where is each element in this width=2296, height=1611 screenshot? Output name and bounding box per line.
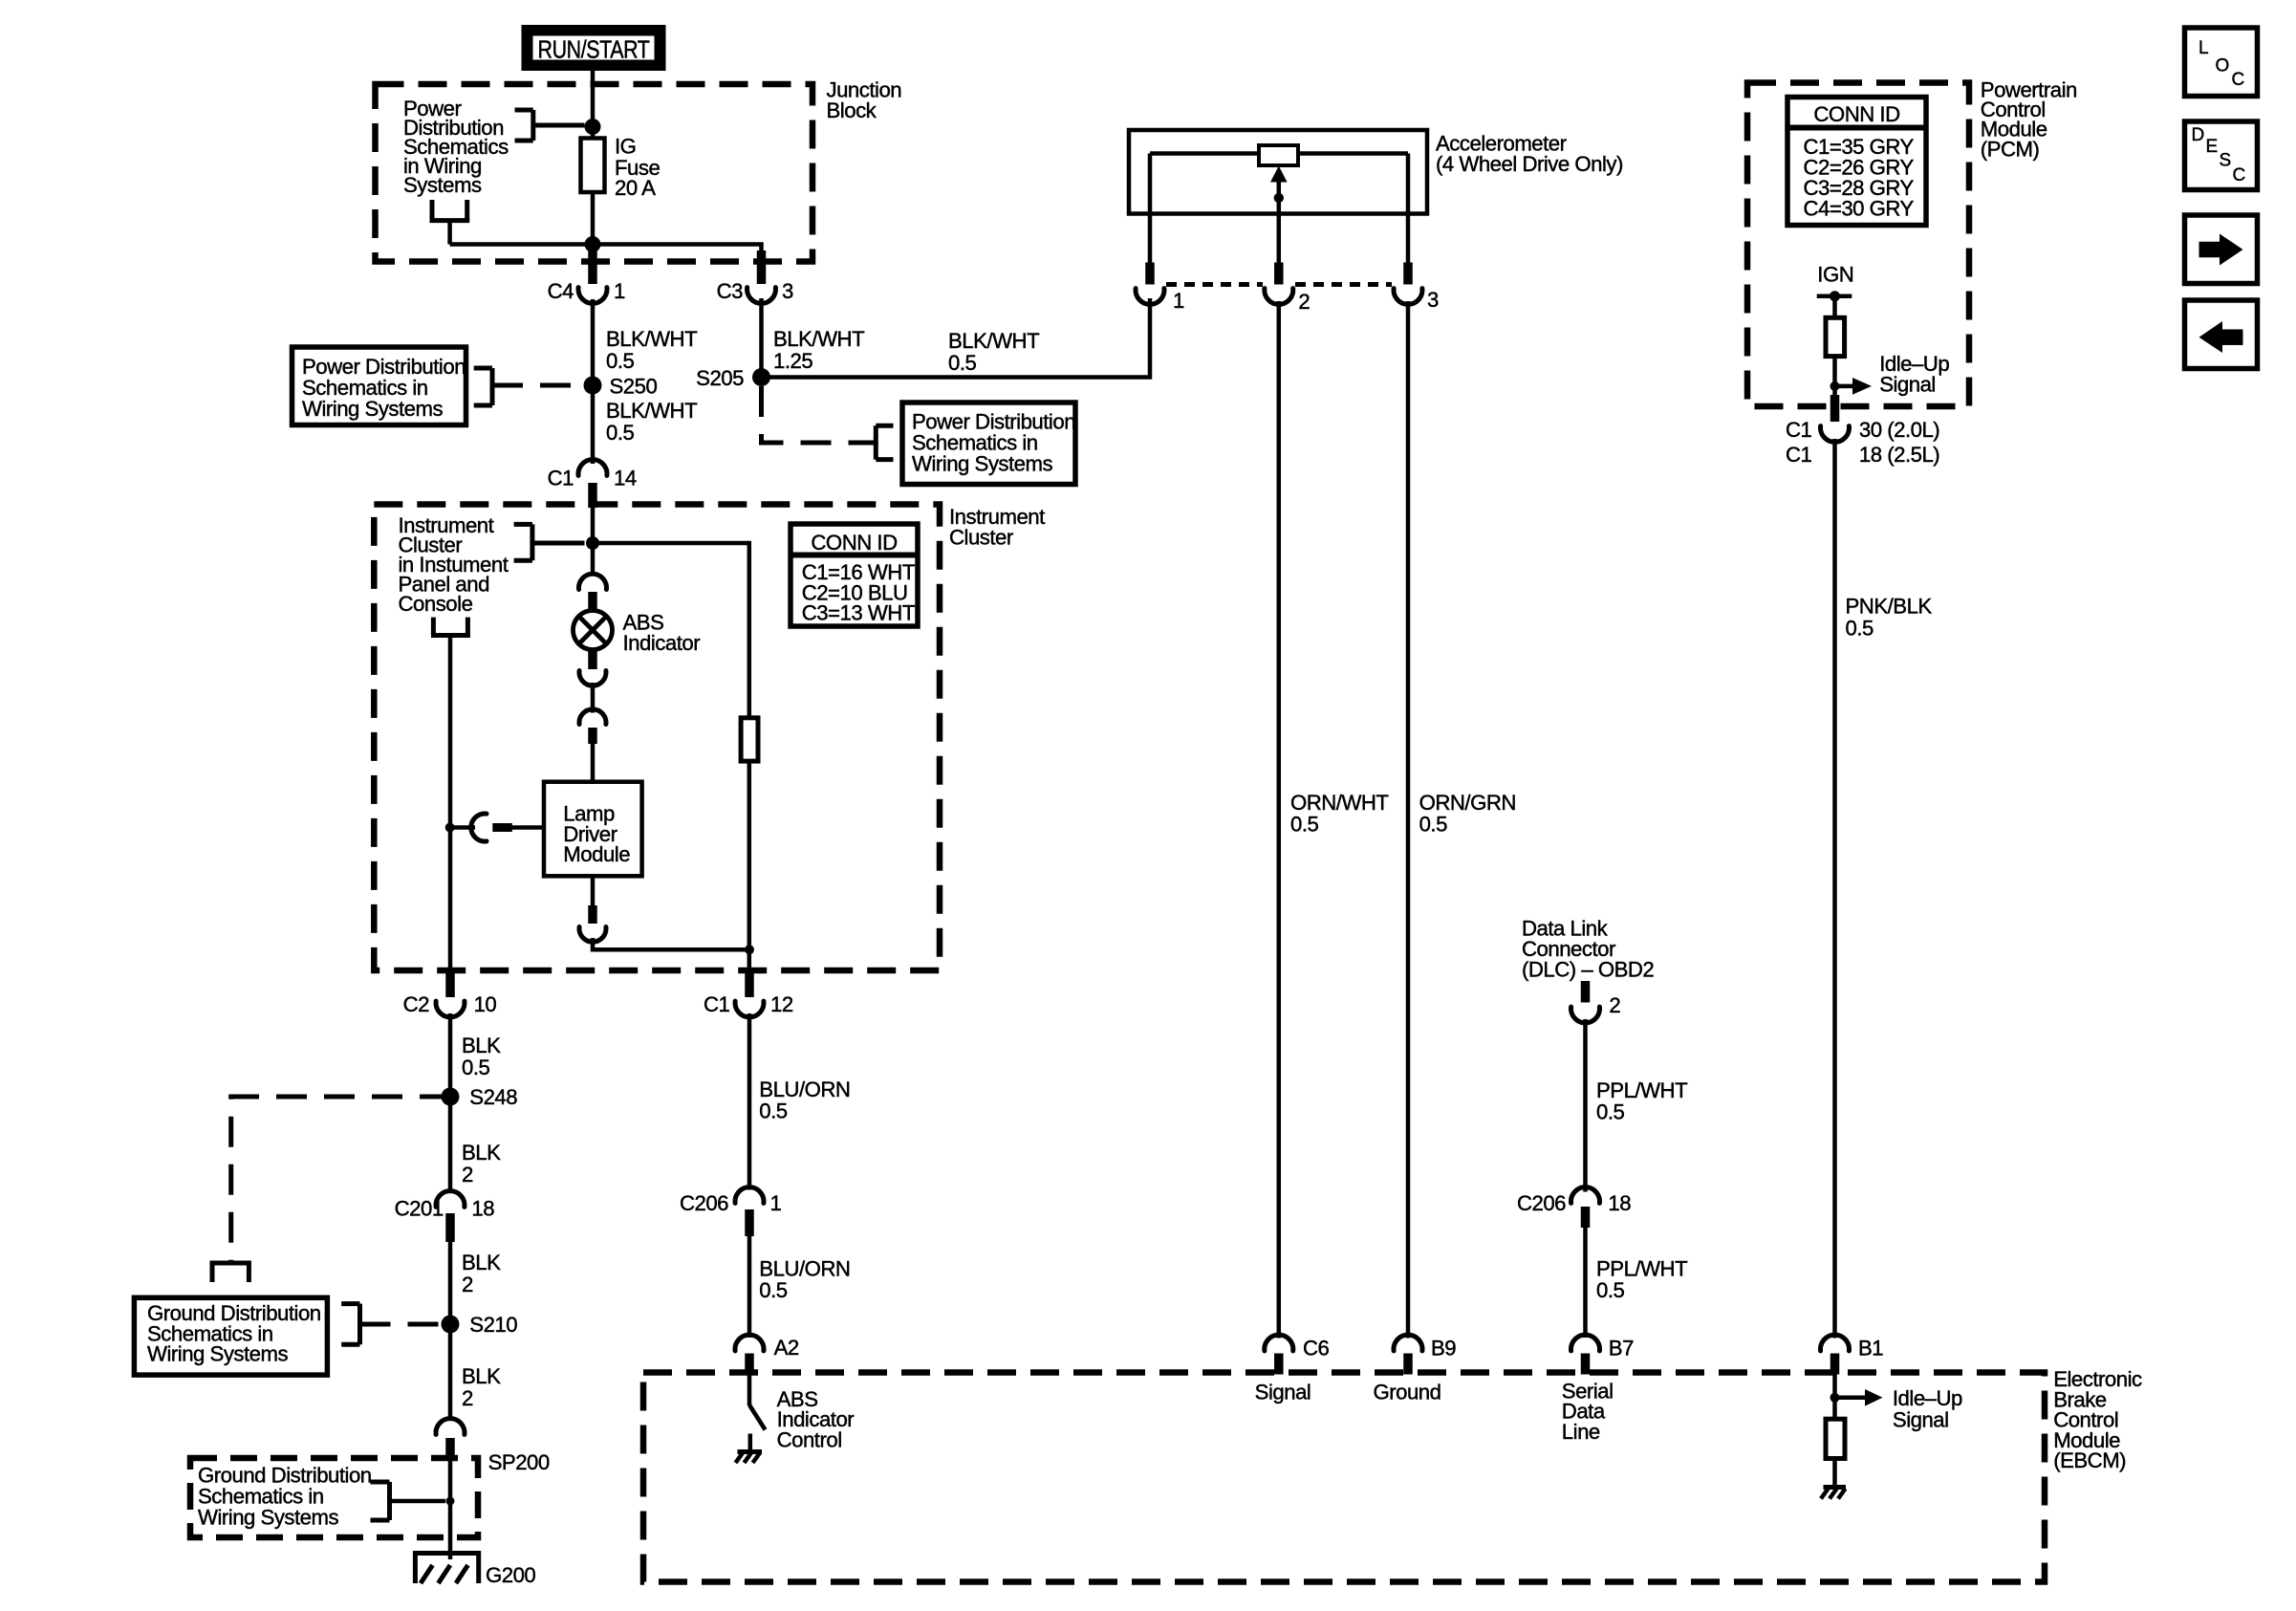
label Idle-Up Signal (PCM): [1879, 352, 1949, 397]
splice S250: [584, 375, 658, 399]
svg-text:Wiring Systems: Wiring Systems: [302, 397, 444, 421]
DESC box: [2185, 121, 2258, 190]
wire SP200 to G200: [448, 1457, 453, 1559]
reference box power distribution schematics (right): [902, 403, 1075, 485]
splice S205: [696, 366, 770, 390]
svg-text:C1: C1: [1786, 418, 1812, 442]
wire RUN/START to fuse: [591, 71, 596, 140]
reference bracket (instrument cluster): [514, 524, 585, 560]
svg-text:(DLC) – OBD2: (DLC) – OBD2: [1522, 957, 1654, 981]
svg-text:ORN/WHT: ORN/WHT: [1290, 791, 1389, 815]
svg-text:C206: C206: [1517, 1191, 1566, 1215]
svg-text:Wiring Systems: Wiring Systems: [147, 1342, 289, 1366]
svg-text:30 (2.0L): 30 (2.0L): [1859, 418, 1939, 442]
wire pin3 to B9: [1406, 301, 1411, 1339]
wire ground leg: [448, 636, 453, 990]
svg-text:Line: Line: [1562, 1420, 1600, 1444]
connector C201 pin 18: [395, 1191, 495, 1242]
svg-text:3: 3: [1427, 288, 1439, 312]
svg-text:3: 3: [782, 279, 793, 303]
wire label ORN/GRN 0.5: [1419, 791, 1516, 837]
wire C1-12 to C206-1: [747, 1013, 752, 1190]
wire pin2 to C6: [1277, 301, 1282, 1339]
connector C1 pin 14: [548, 460, 637, 508]
svg-text:SP200: SP200: [488, 1450, 550, 1474]
svg-text:Signal: Signal: [1879, 373, 1936, 397]
reference dashed stem S205: [762, 386, 877, 443]
svg-text:0.5: 0.5: [1419, 813, 1448, 837]
wire S205 to accelerometer pin 1: [762, 298, 1151, 378]
connector C206 pin 1: [680, 1187, 782, 1236]
svg-text:(EBCM): (EBCM): [2053, 1448, 2126, 1472]
svg-text:0.5: 0.5: [948, 351, 977, 375]
svg-text:BLK: BLK: [462, 1251, 501, 1274]
wire label BLK/WHT 0.5 (S205 wire): [948, 329, 1040, 375]
wire DLC to C206-18: [1583, 1019, 1588, 1192]
connector PCM C1: [1786, 395, 1939, 467]
svg-text:BLK: BLK: [462, 1034, 501, 1057]
connector C206 pin 18: [1517, 1187, 1631, 1228]
connector A2: [735, 1335, 799, 1375]
svg-text:2: 2: [462, 1163, 473, 1186]
svg-text:2: 2: [1298, 290, 1310, 314]
svg-text:E: E: [2206, 137, 2218, 157]
svg-text:B9: B9: [1431, 1337, 1456, 1361]
svg-text:C: C: [2232, 70, 2244, 90]
accelerometer label: [1436, 132, 1623, 177]
svg-text:O: O: [2216, 56, 2229, 76]
reference bracket under console text: [431, 618, 470, 636]
wire resistor to chassis ground: [1832, 1459, 1837, 1489]
svg-text:(4 Wheel Drive Only): (4 Wheel Drive Only): [1436, 152, 1623, 176]
chassis ground (EBCM): [1821, 1488, 1846, 1499]
reference bracket (junction block): [515, 110, 585, 141]
module left output connector: [450, 814, 544, 841]
svg-text:0.5: 0.5: [759, 1278, 788, 1302]
powertrain control module box: [1747, 83, 1969, 407]
PCM CONN ID table: [1787, 98, 1926, 226]
svg-text:C1: C1: [704, 992, 730, 1016]
svg-text:1: 1: [614, 279, 625, 303]
wire C4 to S250: [591, 299, 596, 464]
reference box power distribution schematics (left): [292, 347, 466, 425]
svg-text:2: 2: [462, 1386, 473, 1410]
svg-text:ORN/GRN: ORN/GRN: [1419, 791, 1516, 815]
wire C201 to S210: [448, 1242, 453, 1421]
reference bracket (SP200 box): [371, 1482, 446, 1520]
node at G200 stem: [446, 1497, 455, 1506]
svg-text:L: L: [2199, 38, 2208, 58]
svg-text:IG: IG: [615, 135, 636, 159]
node below C1-14: [586, 536, 599, 550]
node above fuse: [585, 119, 601, 135]
svg-text:Wiring Systems: Wiring Systems: [912, 452, 1053, 476]
label Idle-Up Signal (EBCM): [1893, 1386, 1962, 1431]
ground G200: [413, 1551, 481, 1583]
idle-up node and arrow (PCM): [1830, 378, 1873, 395]
accelerometer internal circuit: [1150, 145, 1408, 214]
wire label ORN/WHT 0.5: [1290, 791, 1389, 837]
wire C206-1 to A2: [747, 1236, 752, 1338]
svg-text:Indicator: Indicator: [623, 631, 702, 655]
IGN terminal: [1817, 291, 1852, 319]
svg-text:18: 18: [471, 1197, 494, 1221]
svg-text:Systems: Systems: [403, 173, 482, 197]
instrument cluster label: [949, 505, 1045, 550]
svg-text:0.5: 0.5: [759, 1099, 788, 1123]
fuse IG 20A: [581, 139, 605, 193]
ABS indicator control switch: [736, 1375, 766, 1463]
wire label BLU/ORN 0.5 (upper): [759, 1078, 850, 1123]
svg-text:Signal: Signal: [1255, 1381, 1311, 1404]
resistor (instrument cluster): [741, 718, 758, 761]
connector C1 pin 12: [704, 968, 793, 1017]
wire label BLK/WHT 1.25: [773, 327, 865, 373]
connector DLC pin 2: [1571, 981, 1621, 1023]
svg-text:A2: A2: [774, 1336, 799, 1360]
svg-text:14: 14: [614, 467, 637, 490]
svg-text:C1: C1: [548, 467, 574, 490]
connector C4 pin 1: [548, 250, 625, 303]
wire label PNK/BLK 0.5: [1846, 595, 1933, 641]
reference label instrument cluster in instrument panel: [399, 513, 509, 616]
svg-text:C: C: [2233, 165, 2245, 185]
junction block label: [827, 78, 902, 123]
svg-text:18: 18: [1608, 1191, 1631, 1215]
svg-text:PNK/BLK: PNK/BLK: [1846, 595, 1933, 619]
connector C2 pin 10: [403, 968, 497, 1017]
svg-text:2: 2: [1609, 993, 1620, 1017]
connector B1: [1821, 1335, 1884, 1374]
reference dashed stem S248: [231, 1097, 450, 1263]
wire fuse to lower node: [591, 190, 596, 262]
svg-text:0.5: 0.5: [1290, 813, 1319, 837]
wire label BLU/ORN 0.5 (lower): [759, 1257, 850, 1303]
connector C6: [1265, 1335, 1330, 1374]
splice S248: [442, 1085, 518, 1109]
svg-text:S250: S250: [610, 375, 658, 399]
label IGN: [1817, 263, 1853, 287]
svg-text:C3=13 WHT: C3=13 WHT: [802, 601, 916, 625]
wire resistor to PCM C1: [1832, 357, 1837, 411]
svg-text:20 A: 20 A: [615, 176, 656, 200]
svg-text:Console: Console: [399, 592, 473, 616]
svg-text:0.5: 0.5: [1596, 1100, 1625, 1124]
svg-text:BLK/WHT: BLK/WHT: [773, 327, 865, 351]
svg-text:S248: S248: [469, 1085, 517, 1109]
svg-text:BLK: BLK: [462, 1364, 501, 1388]
wire label PPL/WHT 0.5 (upper): [1596, 1078, 1688, 1124]
svg-text:Module: Module: [563, 842, 630, 866]
junction block box: [376, 84, 813, 262]
svg-text:Idle–Up: Idle–Up: [1893, 1386, 1962, 1410]
accelerometer pin 2: [1265, 214, 1310, 315]
electronic brake control module box: [643, 1373, 2045, 1582]
splice SP200: [436, 1419, 550, 1474]
connector B7: [1571, 1335, 1635, 1374]
accelerometer connector dashed line: [1166, 282, 1392, 287]
power source label RUN/START: [526, 30, 661, 67]
forward arrow box: [2185, 215, 2258, 284]
PCM label: [1981, 78, 2077, 162]
svg-text:12: 12: [770, 992, 793, 1016]
svg-text:PPL/WHT: PPL/WHT: [1596, 1078, 1688, 1102]
svg-text:C3: C3: [717, 279, 744, 303]
svg-text:18 (2.5L): 18 (2.5L): [1859, 443, 1939, 467]
svg-text:1: 1: [1173, 289, 1184, 313]
svg-text:(PCM): (PCM): [1981, 138, 2040, 162]
label Ground: [1373, 1381, 1440, 1404]
reference bracket and dashed stem to S250: [474, 368, 579, 405]
svg-text:BLU/ORN: BLU/ORN: [759, 1078, 850, 1101]
wire label BLK 2 (upper): [462, 1141, 501, 1186]
wire C3 to S205: [759, 298, 764, 381]
wire resistor to C1-12: [747, 761, 752, 989]
svg-text:1.25: 1.25: [773, 349, 812, 373]
connector C3 pin 3: [717, 250, 793, 303]
B1 internal node and arrow: [1830, 1374, 1883, 1421]
svg-text:C2: C2: [403, 992, 430, 1016]
wire label BLK/WHT 0.5 (C4): [606, 327, 698, 373]
resistor (EBCM): [1826, 1419, 1845, 1458]
svg-text:BLK/WHT: BLK/WHT: [606, 399, 698, 423]
node below fuse: [585, 236, 601, 252]
data link connector label: [1522, 917, 1654, 982]
svg-text:RUN/START: RUN/START: [538, 35, 650, 64]
wire C1-14 to lamp: [591, 508, 596, 577]
reference bracket (S205 box): [876, 425, 893, 459]
svg-text:BLK/WHT: BLK/WHT: [948, 329, 1040, 353]
connector half above ABS lamp: [579, 574, 607, 610]
wire node to resistor branch: [593, 543, 749, 720]
reference bracket (S248): [210, 1263, 251, 1282]
svg-text:G200: G200: [486, 1563, 535, 1587]
svg-text:Ground: Ground: [1373, 1381, 1440, 1404]
svg-text:Control: Control: [777, 1427, 842, 1451]
reference bracket under power distribution text: [430, 200, 594, 245]
svg-text:B7: B7: [1609, 1337, 1634, 1361]
svg-text:0.5: 0.5: [462, 1056, 490, 1079]
resistor (PCM): [1826, 317, 1845, 356]
instrument cluster CONN ID table: [791, 524, 918, 626]
accelerometer pin 1: [1136, 214, 1184, 314]
reference box ground distribution schematics (solid): [134, 1297, 327, 1375]
accelerometer pin 3: [1394, 214, 1439, 313]
wire label BLK 2 (lower): [462, 1364, 501, 1410]
svg-text:CONN ID: CONN ID: [1813, 102, 1899, 126]
svg-text:C206: C206: [680, 1191, 728, 1215]
svg-text:BLU/ORN: BLU/ORN: [759, 1257, 850, 1281]
svg-text:0.5: 0.5: [606, 421, 635, 445]
svg-text:2: 2: [462, 1273, 473, 1296]
svg-text:0.5: 0.5: [606, 349, 635, 373]
svg-text:Signal: Signal: [1893, 1407, 1949, 1431]
instrument cluster box: [374, 505, 940, 971]
label ABS Indicator Control: [777, 1387, 856, 1452]
node lamp module return: [745, 945, 754, 954]
svg-text:C1: C1: [1786, 443, 1812, 467]
reference box ground distribution schematics (dashed): [190, 1458, 478, 1537]
lamp driver module box: [544, 782, 642, 877]
svg-text:D: D: [2192, 125, 2204, 145]
svg-text:CONN ID: CONN ID: [811, 531, 897, 555]
label Signal: [1255, 1381, 1311, 1404]
svg-text:S205: S205: [696, 366, 744, 390]
label ABS Indicator: [623, 611, 702, 656]
svg-text:C6: C6: [1303, 1337, 1330, 1361]
node on ground leg: [445, 823, 455, 833]
svg-text:Wiring Systems: Wiring Systems: [198, 1506, 339, 1530]
reference label power distribution schematics (junction block): [403, 97, 509, 197]
svg-text:S210: S210: [469, 1313, 517, 1337]
svg-text:Block: Block: [827, 98, 877, 122]
svg-text:0.5: 0.5: [1846, 617, 1874, 641]
svg-text:B1: B1: [1858, 1337, 1883, 1361]
svg-text:PPL/WHT: PPL/WHT: [1596, 1257, 1688, 1281]
connector B9: [1394, 1335, 1456, 1374]
wire PCM C1 to B1: [1832, 439, 1837, 1339]
wire connector to lamp driver module: [591, 743, 596, 784]
svg-text:C201: C201: [395, 1197, 444, 1221]
svg-text:C4=30 GRY: C4=30 GRY: [1804, 197, 1915, 221]
ABS indicator lamp: [574, 611, 613, 650]
svg-text:IGN: IGN: [1817, 263, 1853, 287]
module bottom connector: [579, 876, 749, 949]
svg-text:BLK/WHT: BLK/WHT: [606, 327, 698, 351]
wire node to C3 drop: [593, 245, 762, 263]
svg-text:Cluster: Cluster: [949, 526, 1014, 550]
svg-text:0.5: 0.5: [1596, 1278, 1625, 1302]
wire label BLK/WHT 0.5 (S250): [606, 399, 698, 445]
svg-text:10: 10: [474, 992, 497, 1016]
wire C2 to S248: [448, 1013, 453, 1193]
back arrow box: [2185, 300, 2258, 369]
wire label BLK 2 (middle): [462, 1251, 501, 1296]
reference bracket and dashed stem (S210): [341, 1304, 442, 1345]
EBCM label: [2053, 1367, 2142, 1472]
svg-text:C4: C4: [548, 279, 574, 303]
accelerometer box: [1129, 130, 1427, 214]
splice S210: [442, 1313, 518, 1337]
wire label PPL/WHT 0.5 (lower): [1596, 1257, 1688, 1303]
svg-text:1: 1: [770, 1191, 782, 1215]
label Serial Data Line: [1562, 1379, 1614, 1444]
in-line connector below lamp: [579, 650, 606, 745]
svg-text:BLK: BLK: [462, 1141, 501, 1165]
label G200: [486, 1563, 535, 1587]
wire C206-18 to B7: [1583, 1228, 1588, 1338]
fuse label IG Fuse 20 A: [615, 135, 660, 201]
svg-text:S: S: [2220, 151, 2231, 171]
wire label BLK 0.5: [462, 1034, 501, 1079]
LOC box: [2185, 28, 2258, 97]
